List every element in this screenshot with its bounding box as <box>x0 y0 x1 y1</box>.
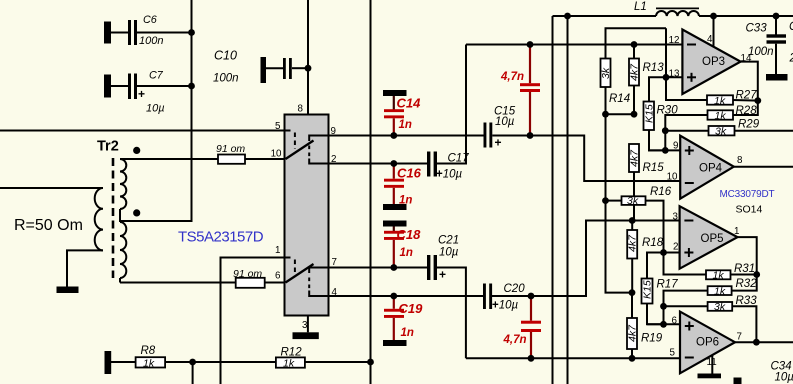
svg-text:Tr2: Tr2 <box>97 139 119 155</box>
capacitor C18 <box>383 221 421 268</box>
svg-text:1k: 1k <box>715 110 727 122</box>
svg-text:1k: 1k <box>713 269 725 281</box>
node left rail junction x192 <box>189 359 196 366</box>
svg-text:MC33079DT: MC33079DT <box>720 189 775 200</box>
capacitor 4.7n top <box>500 45 540 136</box>
resistor R19 4k7 <box>627 293 663 359</box>
svg-text:10µ: 10µ <box>775 372 793 384</box>
svg-text:10µ: 10µ <box>146 103 165 115</box>
wire row7 chip to C21 <box>329 267 428 269</box>
svg-text:SO14: SO14 <box>736 204 763 216</box>
pin 5 stub <box>285 130 291 132</box>
wire row9 C15 to elbow <box>492 136 680 182</box>
svg-text:R15: R15 <box>643 162 665 174</box>
pin 2 contact <box>309 159 328 164</box>
wire top supply rail <box>553 16 793 384</box>
pin 7 contact <box>309 268 328 274</box>
svg-text:1: 1 <box>734 226 739 237</box>
svg-text:3: 3 <box>302 320 308 331</box>
svg-text:R29: R29 <box>738 119 760 131</box>
wire middle node link <box>606 113 635 115</box>
svg-text:R28: R28 <box>736 105 758 117</box>
resistor R33 3k <box>664 295 758 342</box>
wire op4 output <box>734 166 793 168</box>
svg-text:1k: 1k <box>714 95 726 107</box>
svg-text:4k7: 4k7 <box>629 63 641 81</box>
node op5 pin2 junction <box>660 249 667 256</box>
resistor R13 4k7 <box>629 45 665 115</box>
svg-text:C7: C7 <box>149 70 164 82</box>
node C10 junction <box>305 65 312 72</box>
resistor R8 1k <box>111 345 276 369</box>
op-amp OP6 <box>670 312 742 374</box>
node op5 pin3 junction <box>629 217 636 224</box>
node op3 pin13 junction <box>663 74 670 81</box>
svg-text:R13: R13 <box>643 62 665 74</box>
svg-text:91 om: 91 om <box>233 268 262 280</box>
svg-text:3: 3 <box>673 212 679 223</box>
node 4.7n bottom lower junction <box>528 355 535 362</box>
svg-text:+10µ: +10µ <box>436 169 463 181</box>
svg-text:R27: R27 <box>736 90 758 102</box>
svg-text:C18: C18 <box>397 227 422 242</box>
svg-text:K15: K15 <box>642 280 654 299</box>
pin 3 stub <box>307 316 309 333</box>
svg-text:10: 10 <box>271 149 282 160</box>
wire op3 output <box>741 62 758 101</box>
svg-text:7: 7 <box>332 257 337 268</box>
svg-text:4k7: 4k7 <box>627 234 639 252</box>
node C7 junction <box>188 83 195 90</box>
wire pin5 row from left edge to chip <box>0 130 285 132</box>
svg-text:OP5: OP5 <box>701 233 724 245</box>
node rail junction x567 <box>564 13 571 20</box>
svg-text:OP3: OP3 <box>702 56 725 68</box>
wire op6 output <box>735 341 793 343</box>
op-amp OP5 <box>673 206 740 269</box>
svg-text:4: 4 <box>707 34 713 45</box>
svg-text:10µ: 10µ <box>495 116 515 128</box>
resistor R28 1k <box>665 101 758 151</box>
wire center tap <box>120 220 192 222</box>
resistor 91om top <box>120 143 285 164</box>
wire secondary bottom stub <box>119 278 121 283</box>
wire row7 C21 down to op6 rail <box>437 268 466 359</box>
svg-text:C6: C6 <box>143 14 157 26</box>
svg-text:K15: K15 <box>644 104 656 123</box>
wire primary top lead <box>0 187 103 189</box>
wire vertical C6/C7 bus down to center tap bend <box>120 0 192 221</box>
resistor R17 K15 <box>642 253 679 325</box>
svg-text:1n: 1n <box>400 247 413 259</box>
capacitor C14 <box>383 90 421 136</box>
svg-text:100n: 100n <box>213 73 239 85</box>
capacitor C21 <box>427 235 459 282</box>
svg-text:10: 10 <box>667 172 678 183</box>
node rail junction op3 pin4 <box>710 13 717 20</box>
resistor R16 3k <box>606 186 672 253</box>
node polarity dot top <box>133 147 140 154</box>
svg-text:2: 2 <box>673 242 678 253</box>
capacitor C6 <box>104 14 192 47</box>
ground primary <box>57 287 79 294</box>
resistor R32 1k <box>664 275 758 325</box>
wire left bottom rail stub <box>192 362 194 384</box>
svg-text:4k7: 4k7 <box>629 149 641 167</box>
capacitor C10 <box>213 49 308 85</box>
node op4 pin9 junction <box>662 147 669 154</box>
svg-text:C19: C19 <box>399 301 424 316</box>
svg-text:TS5A23157D: TS5A23157D <box>178 229 264 246</box>
svg-text:R31: R31 <box>734 263 755 275</box>
svg-text:L1: L1 <box>634 1 647 13</box>
wire row4 C20 to elbow up to op5 input <box>492 221 680 297</box>
resistor 91om bottom <box>120 268 285 288</box>
svg-text:OP6: OP6 <box>696 337 719 349</box>
resistor R12 1k <box>276 347 371 370</box>
svg-text:R19: R19 <box>641 333 663 345</box>
svg-text:100n: 100n <box>748 46 774 58</box>
core <box>112 158 115 278</box>
svg-text:R32: R32 <box>736 278 758 290</box>
node R13 top junction <box>631 41 638 48</box>
wire vertical pin1 bus <box>221 258 285 384</box>
svg-text:1k: 1k <box>714 285 726 297</box>
svg-text:R8: R8 <box>141 345 156 357</box>
node R18 bottom junction <box>629 289 636 296</box>
switch arm bottom <box>286 264 314 283</box>
wire vertical pin8 bus <box>307 0 309 115</box>
pin 4 contact <box>309 291 328 297</box>
svg-text:R16: R16 <box>650 186 672 198</box>
node R33 left junction <box>660 303 667 310</box>
svg-text:C20: C20 <box>504 283 526 295</box>
wire row2 C17 up to op3 input wire <box>437 45 466 164</box>
capacitor C19 <box>383 296 423 346</box>
svg-text:12: 12 <box>669 35 680 46</box>
svg-text:3k: 3k <box>600 67 612 79</box>
svg-text:8: 8 <box>737 155 743 166</box>
svg-text:+: + <box>439 268 446 282</box>
svg-text:6: 6 <box>275 271 281 282</box>
svg-text:7: 7 <box>737 332 742 343</box>
switch IC U1 TS5A23157D <box>271 104 338 340</box>
op-amp OP4 <box>667 136 743 199</box>
svg-text:C33: C33 <box>746 23 768 35</box>
svg-text:C17: C17 <box>448 153 470 165</box>
node middle right junction <box>631 111 638 118</box>
resistor R30 K15 <box>644 77 679 150</box>
node R16 left junction <box>602 197 609 204</box>
inductor L1 <box>634 1 699 16</box>
node op5 output junction <box>753 271 760 278</box>
node row9 C14 junction <box>390 132 397 139</box>
capacitor C15 <box>484 106 516 150</box>
svg-text:3k: 3k <box>715 126 727 138</box>
switch arm top <box>286 141 314 160</box>
secondary winding upper <box>120 159 126 209</box>
wire op3 minus input row <box>466 44 682 46</box>
svg-text:3k: 3k <box>627 195 639 207</box>
node row4 C19 junction <box>390 293 397 300</box>
pin 1 stub <box>285 257 291 259</box>
node row7 C18 junction <box>390 264 397 271</box>
capacitor 4.7n bottom <box>503 296 542 358</box>
resistor R15 4k7 <box>629 144 665 221</box>
node polarity dot mid <box>133 209 140 216</box>
svg-text:R18: R18 <box>642 237 664 249</box>
wire op4 plus input <box>648 149 680 151</box>
svg-text:C: C <box>789 21 793 33</box>
svg-text:R17: R17 <box>657 279 679 291</box>
op-amp OP3 <box>669 16 752 94</box>
primary winding <box>95 188 103 250</box>
svg-text:C10: C10 <box>214 49 237 63</box>
wire row9 chip to C15 <box>329 135 484 137</box>
wire row4 chip to C20 <box>329 295 484 297</box>
svg-text:4,7n: 4,7n <box>500 71 524 83</box>
node row2 C16 junction <box>390 160 397 167</box>
node rail junction C33 <box>773 13 780 20</box>
svg-text:5: 5 <box>275 121 281 132</box>
ground pin3 <box>293 332 319 339</box>
node 4.7n bottom upper junction <box>528 293 535 300</box>
wire secondary stub <box>119 209 121 222</box>
svg-text:R33: R33 <box>736 295 758 307</box>
node op3 output junction <box>754 97 761 104</box>
wire op3 plus vertical <box>666 28 707 100</box>
capacitor C20 <box>483 283 525 312</box>
svg-text:100n: 100n <box>139 35 163 47</box>
svg-text:8: 8 <box>298 104 304 115</box>
wire row2 chip to C17 <box>329 163 428 165</box>
node R19 bottom junction <box>629 355 636 362</box>
svg-text:1n: 1n <box>401 327 414 339</box>
svg-text:1n: 1n <box>399 195 412 207</box>
secondary winding lower <box>120 222 126 278</box>
svg-text:3k: 3k <box>714 301 726 313</box>
wire op6 minus rail <box>466 357 680 359</box>
resistor R31 1k <box>664 253 757 282</box>
pin 9 contact <box>309 136 328 142</box>
capacitor C34 labels <box>734 361 793 384</box>
ground op6 pin11 <box>698 374 722 379</box>
capacitor C17 <box>427 152 469 181</box>
ground left rail bar <box>105 351 112 374</box>
wire op6 plus input <box>647 323 680 325</box>
svg-text:+: + <box>495 136 502 150</box>
wire op5 output <box>738 237 757 274</box>
svg-text:C21: C21 <box>438 235 459 247</box>
node op6 pin6 junction <box>660 321 667 328</box>
svg-text:R=50 Om: R=50 Om <box>14 217 83 234</box>
svg-text:+10µ: +10µ <box>492 300 519 312</box>
svg-text:C16: C16 <box>397 166 422 181</box>
resistor R27 1k <box>707 90 758 107</box>
svg-text:1k: 1k <box>283 357 295 369</box>
capacitor C33 <box>746 16 788 81</box>
wire op5 plus input <box>664 252 680 254</box>
svg-text:1n: 1n <box>399 119 412 131</box>
svg-text:4k7: 4k7 <box>627 324 639 342</box>
svg-text:10µ: 10µ <box>439 247 459 259</box>
node op6 output junction <box>753 339 760 346</box>
svg-text:5: 5 <box>670 348 676 359</box>
resistor R29 3k <box>665 119 793 138</box>
wire vertical mid bus x=370.5 <box>370 0 372 384</box>
transformer Tr2 <box>57 139 192 294</box>
capacitor C7 <box>104 70 192 115</box>
node C6 junction <box>188 29 195 36</box>
svg-text:C14: C14 <box>397 96 422 111</box>
svg-text:1: 1 <box>275 245 280 256</box>
wire op3 plus input <box>666 76 682 78</box>
node left rail junction x370 <box>367 359 374 366</box>
svg-text:91 om: 91 om <box>216 143 245 155</box>
svg-text:1k: 1k <box>143 357 155 369</box>
node 4.7n top upper junction <box>527 41 534 48</box>
resistor R14 3k <box>600 28 666 114</box>
svg-text:13: 13 <box>669 69 680 80</box>
node R29 left junction <box>662 127 669 134</box>
wire primary bottom lead <box>67 250 103 286</box>
svg-text:R14: R14 <box>609 93 630 105</box>
svg-text:+: + <box>138 87 145 101</box>
node middle left junction <box>602 111 609 118</box>
capacitor C16 <box>383 164 422 211</box>
wire op6 pin11 <box>711 355 713 374</box>
resistor R18 4k7 <box>627 221 664 293</box>
svg-text:4,7n: 4,7n <box>503 334 527 346</box>
node 4.7n top lower junction <box>527 132 534 139</box>
svg-text:OP4: OP4 <box>699 163 723 175</box>
svg-text:2: 2 <box>789 53 793 65</box>
wire middle bus down <box>606 114 633 292</box>
